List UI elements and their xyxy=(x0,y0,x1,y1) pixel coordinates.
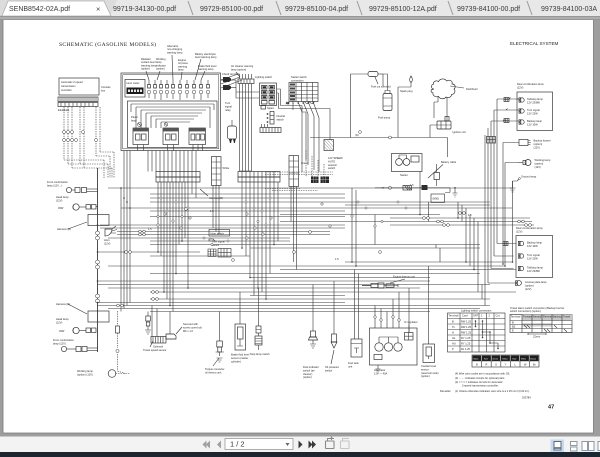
svg-text:Neutral: Neutral xyxy=(277,114,286,118)
svg-text:(12V): (12V) xyxy=(104,242,110,246)
svg-text:(option): (option) xyxy=(421,374,430,378)
sensor engine thermo unit xyxy=(362,275,415,289)
layout continuous icon xyxy=(571,442,578,452)
svg-text:Oil pressure: Oil pressure xyxy=(325,365,340,369)
svg-text:99729-85100-00.pdf: 99729-85100-00.pdf xyxy=(200,6,263,13)
svg-text:Automatic 2-speed: Automatic 2-speed xyxy=(61,80,83,84)
svg-text:(4) Wire color codes are in a: (4) Wire color codes are in accordance w… xyxy=(455,372,510,376)
controller U1 transmission controller box xyxy=(59,78,99,95)
svg-text:Head lamp: Head lamp xyxy=(56,195,69,199)
sensor brake fluid level sensor xyxy=(231,292,250,363)
lamp housing rear combination lamp right top xyxy=(517,82,553,131)
svg-text:SCHEMATIC (GASOLINE MODELS): SCHEMATIC (GASOLINE MODELS) xyxy=(59,41,156,48)
svg-text:Forward: Forward xyxy=(523,315,533,319)
main panel assembly outer box xyxy=(121,73,221,151)
fuse F2 link connector xyxy=(422,185,428,190)
page number xyxy=(548,405,554,411)
svg-text:1.5: 1.5 xyxy=(468,213,472,217)
svg-text:Brown: Brown xyxy=(531,358,537,360)
wire vertical drops left panel bundle xyxy=(121,151,196,312)
svg-text:Torque converter: Torque converter xyxy=(205,367,225,371)
svg-text:(12V): (12V) xyxy=(516,229,522,233)
svg-text:(12V): (12V) xyxy=(535,165,541,169)
svg-text:(option): (option) xyxy=(141,67,150,71)
svg-text:ELECTRICAL SYSTEM: ELECTRICAL SYSTEM xyxy=(510,41,559,46)
svg-text:switch: switch xyxy=(277,117,285,121)
svg-text:switch (air: switch (air xyxy=(303,368,315,372)
solenoid fuel cut solenoid xyxy=(351,72,392,89)
console box label xyxy=(101,85,111,93)
lamp L8 license plate lamp xyxy=(516,280,548,291)
svg-text:Tail/stop lamp: Tail/stop lamp xyxy=(527,266,543,270)
svg-text:1.5: 1.5 xyxy=(148,227,152,231)
svg-text:99719-34130-00.pdf: 99719-34130-00.pdf xyxy=(113,6,176,13)
svg-text:Remarks:: Remarks: xyxy=(440,389,451,393)
lamp housing rear combination lamp right bottom xyxy=(516,226,553,278)
svg-text:sensor: sensor xyxy=(421,367,429,371)
svg-text:12V SPEED/: 12V SPEED/ xyxy=(328,156,343,160)
connector ring terminals on controller wires xyxy=(63,131,98,142)
svg-text:(12V): (12V) xyxy=(517,85,523,89)
svg-text:1 / 2: 1 / 2 xyxy=(230,440,245,449)
switch S4 horn switch xyxy=(209,230,230,242)
svg-text:12V 23W: 12V 23W xyxy=(527,111,538,115)
svg-text:(option): (option) xyxy=(534,142,543,146)
cable battery cable label xyxy=(428,160,457,178)
svg-text:Panel: Panel xyxy=(131,115,138,119)
svg-text:(option): (option) xyxy=(535,161,544,165)
pump fuel pump xyxy=(378,86,392,120)
svg-text:unit: unit xyxy=(348,364,352,368)
distributor xyxy=(431,79,478,121)
svg-text:B: B xyxy=(512,321,514,325)
svg-text:Dust indicator: Dust indicator xyxy=(303,365,319,369)
svg-text:Backup buzzer: Backup buzzer xyxy=(534,139,551,143)
connector J9 selector connector blocks xyxy=(311,177,329,184)
svg-text:12V 10W: 12V 10W xyxy=(527,122,538,126)
svg-text:2-speed transmission controlle: 2-speed transmission controller. xyxy=(462,384,499,388)
buzzer H1 horn xyxy=(104,226,117,246)
nav prev icon xyxy=(217,441,221,449)
svg-text:E: E xyxy=(512,329,514,333)
svg-text:Backup: Backup xyxy=(553,315,562,319)
svg-text:Terminal: Terminal xyxy=(449,314,459,318)
wire engine ground bus xyxy=(310,133,448,157)
svg-text:lamp (option): lamp (option) xyxy=(231,67,246,71)
generator alternator xyxy=(370,288,418,375)
svg-text:(3) - - - - indicates circui: (3) - - - - indicates circuits for optio… xyxy=(455,376,505,380)
svg-text:cleaner): cleaner) xyxy=(303,372,313,376)
svg-text:45W: 45W xyxy=(58,206,64,210)
connector inline junction pairs right xyxy=(423,212,532,227)
svg-text:Travel speed sensor: Travel speed sensor xyxy=(143,348,167,352)
transformer T1 ignition coil xyxy=(430,117,466,138)
svg-text:signal: signal xyxy=(225,104,232,108)
table option switch connection xyxy=(510,306,572,339)
bottom toolbar xyxy=(0,437,600,453)
solenoid S6 bottom solenoid xyxy=(151,306,176,349)
sensor torque converter oil thermo unit xyxy=(205,312,225,375)
svg-text:IC regulator: IC regulator xyxy=(404,320,418,324)
svg-text:203784: 203784 xyxy=(522,396,531,400)
svg-text:lamp: lamp xyxy=(178,68,184,72)
svg-text:Neutral: Neutral xyxy=(533,315,542,319)
svg-text:99729-85100-04.pdf: 99729-85100-04.pdf xyxy=(285,6,348,13)
svg-text:oil thermo unit: oil thermo unit xyxy=(205,370,222,374)
svg-text:License plate lamp: License plate lamp xyxy=(525,280,547,284)
svg-text:Ignition coil: Ignition coil xyxy=(453,130,466,134)
connector J3 white connector xyxy=(212,157,230,186)
svg-text:Alternator: Alternator xyxy=(374,368,385,372)
svg-text:Distributor: Distributor xyxy=(466,87,478,91)
svg-text:(option) (12V): (option) (12V) xyxy=(77,373,93,377)
svg-text:Engine thermo unit: Engine thermo unit xyxy=(393,275,415,279)
battery BT1 xyxy=(375,164,450,203)
svg-text:cylinder): cylinder) xyxy=(231,359,241,363)
table starter switch connection xyxy=(289,75,318,104)
layout partial icon at edge xyxy=(598,442,600,451)
page number field xyxy=(225,439,293,450)
svg-text:×: × xyxy=(96,5,100,14)
svg-text:lamp (12V): lamp (12V) xyxy=(53,342,66,346)
svg-text:connection: connection xyxy=(291,78,304,82)
svg-text:Y: Y xyxy=(505,362,507,366)
sensor coolant level sensor xyxy=(421,266,439,378)
svg-text:BZ: BZ xyxy=(512,325,516,329)
svg-text:RW 1.25: RW 1.25 xyxy=(461,331,472,335)
lamp L6 panel lamp xyxy=(131,115,142,127)
ground strap right xyxy=(510,175,537,193)
meter M1 hour meter xyxy=(125,80,145,98)
svg-text:lamp (12V...): lamp (12V...) xyxy=(47,184,62,188)
switch S2 neutral switch xyxy=(267,112,286,125)
wire transmission dashed bus xyxy=(265,151,333,191)
layout single-page icon (active) xyxy=(551,440,565,453)
svg-text:47: 47 xyxy=(548,405,554,411)
node E2 E3 E4 labels xyxy=(58,108,70,112)
svg-text:Coolant level: Coolant level xyxy=(421,364,436,368)
svg-text:Rear combination lamp: Rear combination lamp xyxy=(517,82,544,86)
svg-text:HU: HU xyxy=(452,342,456,346)
svg-text:12V 23W: 12V 23W xyxy=(527,256,538,260)
svg-text:Backup lamp: Backup lamp xyxy=(527,119,543,123)
wire lighting switch outputs xyxy=(277,89,330,172)
ground engine ground right xyxy=(453,187,458,197)
connector J12 inline plug grids on lamp feeds xyxy=(503,98,509,246)
switch S3 selector switch xyxy=(324,140,343,171)
tab separators xyxy=(188,1,532,15)
svg-text:(N90): (N90) xyxy=(433,197,440,201)
wire engine feed vertical xyxy=(351,74,412,138)
svg-text:Terminal: Terminal xyxy=(511,315,521,319)
layout facing icon xyxy=(582,442,594,451)
lamp L5 working lamp option xyxy=(77,311,130,377)
svg-text:box: box xyxy=(101,89,106,93)
svg-text:Console: Console xyxy=(101,85,111,89)
svg-text:switch connection) (option): switch connection) (option) xyxy=(510,309,541,313)
svg-text:Turn signal: Turn signal xyxy=(527,108,540,112)
history back icon xyxy=(326,437,335,449)
svg-text:Lighting switch connection: Lighting switch connection xyxy=(461,309,492,313)
svg-text:Air cleaner warning: Air cleaner warning xyxy=(231,64,254,68)
gauge G1 fuel gauge xyxy=(133,128,149,151)
lamp L7 working lamp right xyxy=(518,158,551,169)
inactive tabs row xyxy=(110,0,600,16)
svg-text:White: White xyxy=(521,357,527,360)
svg-text:(1) Unless otherwise indicate: (1) Unless otherwise indicated, wire siz… xyxy=(455,389,530,393)
svg-text:Ground strap: Ground strap xyxy=(521,175,537,179)
label harness B xyxy=(200,189,223,200)
svg-text:Starter: Starter xyxy=(400,173,408,177)
lamp L3 head lamp bottom xyxy=(56,317,96,334)
svg-text:AUTO: AUTO xyxy=(328,159,335,163)
buzzer BZ1 backup buzzer xyxy=(514,139,551,150)
tab bar background xyxy=(0,0,600,16)
wire trunk left vertical xyxy=(96,168,100,352)
svg-text:Starter switch: Starter switch xyxy=(291,75,307,79)
wire bundle panel to lighting switch xyxy=(221,74,260,171)
junction box harness D top xyxy=(57,215,109,232)
svg-text:Turn signal: Turn signal xyxy=(527,253,540,257)
svg-text:Fuel tank: Fuel tank xyxy=(348,361,359,365)
wire horizontal bus field xyxy=(98,188,535,312)
gauge G2 temp gauge xyxy=(163,128,179,151)
svg-text:switch: switch xyxy=(328,166,336,170)
svg-text:RY 1.25: RY 1.25 xyxy=(461,342,471,346)
svg-text:Black: Black xyxy=(474,358,479,360)
svg-text:Working lamp: Working lamp xyxy=(535,158,551,162)
switch S8 dust indicator switch xyxy=(303,285,319,380)
svg-text:Br: Br xyxy=(533,362,536,366)
nav next icon xyxy=(299,441,303,449)
svg-text:B: B xyxy=(476,362,478,366)
svg-text:99739-84100-03A: 99739-84100-03A xyxy=(541,6,597,13)
spark plug P1 xyxy=(400,76,413,93)
svg-text:(reservoir tank): (reservoir tank) xyxy=(421,371,439,375)
svg-text:relay: relay xyxy=(225,108,231,112)
connector J6 small row above lighting wires xyxy=(238,74,254,84)
svg-text:12V 23/8W: 12V 23/8W xyxy=(527,269,540,273)
svg-text:warning lamp: warning lamp xyxy=(198,67,214,71)
svg-text:Front combination: Front combination xyxy=(47,180,68,184)
connector J7 strip below neutral switch xyxy=(260,124,281,133)
switch S1 lighting switch xyxy=(255,75,277,106)
svg-text:22mm: 22mm xyxy=(533,335,540,339)
svg-text:M6 x 1.0: M6 x 1.0 xyxy=(183,329,194,333)
svg-text:(option): (option) xyxy=(303,375,312,379)
label spare xyxy=(261,106,274,110)
svg-text:Harness (D): Harness (D) xyxy=(56,302,70,306)
svg-text:99729-85100-12A.pdf: 99729-85100-12A.pdf xyxy=(369,6,437,13)
svg-text:controller: controller xyxy=(61,88,72,92)
svg-text:From combination: From combination xyxy=(53,338,74,342)
svg-text:12V 10W: 12V 10W xyxy=(527,244,538,248)
svg-text:RW 1.25: RW 1.25 xyxy=(461,320,472,324)
svg-text:HL: HL xyxy=(452,336,456,340)
junction dots field xyxy=(97,187,514,306)
tab titles xyxy=(9,5,597,14)
svg-text:(N): (N) xyxy=(355,133,359,137)
wire callout leader lines xyxy=(146,55,240,80)
table wire color codes xyxy=(472,355,539,367)
history fwd icon xyxy=(341,439,350,449)
junction box harness D bottom xyxy=(56,302,109,322)
svg-text:(12V): (12V) xyxy=(56,321,62,325)
svg-text:(12V): (12V) xyxy=(56,199,62,203)
svg-text:screw cover bolt: screw cover bolt xyxy=(183,325,202,329)
svg-text:Lighting switch: Lighting switch xyxy=(255,75,273,79)
label wire size marks xyxy=(148,183,472,261)
strip under tabs xyxy=(0,16,600,20)
connector J4 panel connector row B xyxy=(238,172,280,183)
svg-text:Tail/stop lamp: Tail/stop lamp xyxy=(527,97,543,101)
connector J8 green connector xyxy=(289,156,309,187)
note secured with screw xyxy=(176,322,202,334)
svg-text:12V — 40A: 12V — 40A xyxy=(374,371,388,375)
nav last icon xyxy=(309,441,317,449)
nav first-page icon xyxy=(203,441,211,449)
svg-text:R: R xyxy=(486,362,488,366)
bottom dark strip xyxy=(0,452,600,457)
svg-text:(2) = = = = indicates circui: (2) = = = = indicates circuits for autom… xyxy=(455,380,503,384)
svg-text:Head lamp: Head lamp xyxy=(56,317,69,321)
svg-text:Hour meter: Hour meter xyxy=(127,81,140,85)
svg-text:Brake fluid level: Brake fluid level xyxy=(231,353,250,357)
connector J11 inline barrel connector xyxy=(487,137,496,144)
svg-text:selector: selector xyxy=(328,163,337,167)
svg-text:Backup lamp: Backup lamp xyxy=(527,241,543,245)
svg-text:1.5: 1.5 xyxy=(410,183,414,187)
wire vertical drops right bundle xyxy=(352,99,519,299)
svg-text:Cord: Cord xyxy=(462,314,468,318)
schematic title xyxy=(59,41,156,48)
svg-text:RW 1.25: RW 1.25 xyxy=(461,325,472,329)
table lighting switch connection xyxy=(448,309,506,353)
svg-text:Horn: Horn xyxy=(104,238,110,242)
svg-text:Stop lamp switch: Stop lamp switch xyxy=(250,352,270,356)
lamp L4 front combination lamp bottom xyxy=(53,338,98,352)
sensor fuel tank unit xyxy=(348,270,362,369)
svg-text:(option): (option) xyxy=(525,283,534,287)
panel inner box xyxy=(128,101,218,148)
svg-text:99739-84100-00.pdf: 99739-84100-00.pdf xyxy=(457,6,520,13)
svg-text:Harness (D): Harness (D) xyxy=(57,227,71,231)
electrical system title xyxy=(510,41,559,46)
notes remarks text xyxy=(440,372,531,400)
svg-text:transmission: transmission xyxy=(61,84,76,88)
svg-text:warning lamp: warning lamp xyxy=(167,50,183,54)
svg-text:switch: switch xyxy=(325,368,333,372)
svg-text:Working lamp: Working lamp xyxy=(77,369,93,373)
svg-text:RY 1.25: RY 1.25 xyxy=(461,336,471,340)
svg-text:1.5: 1.5 xyxy=(335,257,339,261)
active tab xyxy=(0,1,111,16)
connector inline junction pairs left xyxy=(117,131,408,307)
svg-text:RL 1.25: RL 1.25 xyxy=(461,347,471,351)
indicator lamp cluster panel warning lamps xyxy=(147,80,210,100)
svg-text:45W: 45W xyxy=(59,329,65,333)
svg-text:OFF: OFF xyxy=(473,314,479,318)
svg-text:B: B xyxy=(452,320,454,324)
svg-text:A2: A2 xyxy=(286,101,290,105)
lamp L2 head lamp top xyxy=(56,195,98,210)
svg-text:SENB8542-02A.pdf: SENB8542-02A.pdf xyxy=(9,6,70,13)
svg-text:Green: Green xyxy=(301,161,309,165)
svg-text:sensor (master: sensor (master xyxy=(231,356,248,360)
svg-text:(12V): (12V) xyxy=(534,145,540,149)
lamp L1 front combination lamp top xyxy=(47,180,98,193)
svg-text:Battery cable: Battery cable xyxy=(441,160,457,164)
svg-text:Travel: Travel xyxy=(563,315,571,319)
svg-text:Spark plug: Spark plug xyxy=(400,89,413,93)
switch S7 stop lamp switch xyxy=(250,288,270,356)
svg-text:Secured with: Secured with xyxy=(183,322,199,326)
svg-text:Turn: Turn xyxy=(225,101,231,105)
sensor travel speed sensor xyxy=(143,312,167,353)
wire vertical drops row B bundle xyxy=(213,182,297,299)
switch S5 turn signal switch xyxy=(208,240,231,258)
svg-text:level warning lamp: level warning lamp xyxy=(195,55,217,59)
switch S9 oil pressure switch xyxy=(325,281,340,372)
svg-text:G: G xyxy=(495,362,497,366)
connector J2 panel connector row A xyxy=(156,172,200,183)
label block warning lamp callouts above panel xyxy=(141,44,254,72)
gauge G3 combination gauge xyxy=(189,128,206,151)
svg-text:P: P xyxy=(452,347,454,351)
svg-text:Yellow: Yellow xyxy=(502,358,508,360)
wire panel internal wiring xyxy=(131,104,214,128)
svg-text:(12V): (12V) xyxy=(525,287,531,291)
svg-text:1.5: 1.5 xyxy=(210,209,214,213)
wire dashed controller harness bundle xyxy=(64,107,114,178)
wire rear lamp feeds top xyxy=(485,98,519,306)
svg-text:H: H xyxy=(452,331,454,335)
svg-text:Reverse: Reverse xyxy=(543,315,553,319)
fuse F1 fusible link xyxy=(403,186,412,191)
svg-text:(option): (option) xyxy=(156,67,165,71)
svg-text:Spare: Spare xyxy=(267,106,274,110)
relay K1 turn signal relay xyxy=(225,101,237,143)
motor M2 starter xyxy=(392,154,423,178)
svg-text:Fuel cut solenoid: Fuel cut solenoid xyxy=(371,85,391,89)
svg-text:White: White xyxy=(223,166,230,170)
svg-text:Solenoid: Solenoid xyxy=(153,345,164,349)
svg-text:12V 23/8W: 12V 23/8W xyxy=(527,100,540,104)
connector J1 controller connector strip xyxy=(58,97,98,107)
connector J5 check terminal xyxy=(221,72,240,90)
svg-text:Cut: Cut xyxy=(496,314,500,318)
svg-text:Fuel pump: Fuel pump xyxy=(378,116,391,120)
svg-text:Red: Red xyxy=(484,358,488,360)
svg-text:Green: Green xyxy=(493,358,499,360)
svg-text:Turn signal: Turn signal xyxy=(212,240,225,244)
